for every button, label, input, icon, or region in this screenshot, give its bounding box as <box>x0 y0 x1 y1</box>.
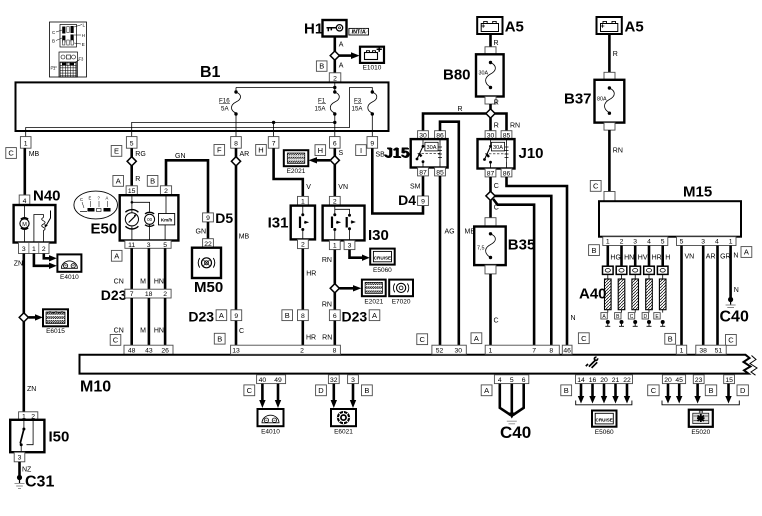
svg-text:15A: 15A <box>352 106 364 113</box>
pin 1 I31 <box>298 196 309 205</box>
svg-text:AR: AR <box>240 151 250 158</box>
wire MB J15/86 to M10/30 <box>440 122 459 346</box>
label H <box>256 145 267 156</box>
wire VN M15/5 to M10/1 <box>682 246 695 346</box>
svg-text:R: R <box>494 40 499 47</box>
svg-text:H: H <box>258 146 263 155</box>
arrows M10 to E4010 <box>259 384 281 408</box>
glow plug B (cyl 2) <box>615 266 627 326</box>
svg-text:A: A <box>474 334 479 343</box>
arrow to E6015 <box>29 314 43 320</box>
svg-text:87: 87 <box>419 169 427 176</box>
svg-text:H1: H1 <box>304 21 323 38</box>
svg-text:6: 6 <box>333 140 337 147</box>
svg-text:F3: F3 <box>79 57 85 62</box>
svg-text:E50: E50 <box>91 221 118 238</box>
label C <box>578 333 589 344</box>
svg-text:18: 18 <box>145 291 153 298</box>
svg-text:38: 38 <box>699 347 707 354</box>
svg-text:4: 4 <box>498 377 502 384</box>
ignition switch H1 <box>304 20 347 38</box>
svg-text:I: I <box>360 146 362 155</box>
label B <box>561 385 572 396</box>
svg-text:7: 7 <box>532 347 536 354</box>
preheating control unit M15 <box>599 184 741 237</box>
svg-text:Km/h: Km/h <box>161 217 173 222</box>
label A <box>741 247 752 258</box>
svg-text:ZN: ZN <box>27 386 36 393</box>
battery E1010 <box>360 47 384 72</box>
wire RN node to J10/85 <box>495 114 507 132</box>
svg-text:HN: HN <box>154 327 164 334</box>
svg-text:8: 8 <box>301 313 305 320</box>
fuse B80 30A <box>443 47 504 104</box>
svg-text:N40: N40 <box>33 188 61 205</box>
label A <box>111 250 122 261</box>
pins 48 43 26 M10 <box>124 345 173 354</box>
pins 13 2 8 M10 <box>231 345 341 354</box>
label B <box>147 176 158 187</box>
svg-text:5: 5 <box>163 242 167 249</box>
label A <box>481 385 492 396</box>
svg-text:F1: F1 <box>51 66 57 71</box>
connector D4 pin 9 <box>418 196 429 206</box>
svg-text:CRUISE: CRUISE <box>374 255 391 260</box>
label B <box>705 385 716 396</box>
svg-text:8: 8 <box>234 140 238 147</box>
svg-text:48: 48 <box>128 347 136 354</box>
B1 internal bus pin5 pin7 F1 <box>132 121 337 137</box>
cruise control unit E5060 <box>370 249 395 274</box>
label A <box>113 176 124 187</box>
svg-text:GN: GN <box>175 153 186 160</box>
svg-text:E7020: E7020 <box>392 298 411 305</box>
svg-text:E2021: E2021 <box>287 168 306 175</box>
svg-text:VN: VN <box>338 184 348 191</box>
svg-text:1: 1 <box>24 140 28 147</box>
pins 1 2 I50 <box>19 412 38 421</box>
label C <box>648 385 659 396</box>
pins 30 85 J10 <box>485 131 512 140</box>
wire HR D23 to M10/2 <box>301 321 304 346</box>
svg-text:3: 3 <box>348 243 352 250</box>
wire R node to E50/15 <box>130 166 133 186</box>
glow plug control unit N40 <box>14 188 61 243</box>
svg-text:B: B <box>319 62 324 71</box>
svg-text:M: M <box>22 222 27 228</box>
wire NZ to ground C31 <box>18 462 21 476</box>
svg-text:RG: RG <box>135 151 146 158</box>
svg-text:HG: HG <box>610 255 621 262</box>
bracket E5060 <box>576 401 632 405</box>
svg-text:2: 2 <box>301 242 305 249</box>
svg-text:B: B <box>591 246 596 255</box>
pins 30 86 J15 <box>418 131 446 140</box>
svg-text:B1: B1 <box>200 64 221 81</box>
pins 38 51 M10 <box>696 345 726 354</box>
svg-text:HR: HR <box>652 255 662 262</box>
svg-text:A40: A40 <box>579 286 607 303</box>
B1 internal bus F3 to pin 1 <box>26 88 373 137</box>
svg-text:9: 9 <box>370 140 374 147</box>
glow plug wire H M15/5 <box>663 246 671 267</box>
svg-text:30A: 30A <box>479 71 489 77</box>
glow plug wire HR M15/4 <box>649 246 662 267</box>
svg-text:N: N <box>733 253 738 260</box>
battery feed A5 <box>477 17 524 36</box>
svg-text:B37: B37 <box>564 91 592 108</box>
svg-text:2: 2 <box>333 75 337 82</box>
label C <box>726 335 737 346</box>
brake pedal switch I31 <box>268 206 315 240</box>
glow plug E (cyl 5) <box>654 266 668 326</box>
svg-text:SM: SM <box>410 184 421 191</box>
wires 4 5 6 to ground C40 <box>500 384 524 419</box>
svg-text:A: A <box>219 311 224 320</box>
arrow to battery positive E1010 <box>339 52 360 59</box>
svg-text:MB: MB <box>29 151 40 158</box>
wire SM D4 to J15/87 <box>422 176 425 196</box>
svg-text:H: H <box>82 33 85 38</box>
arrows M10 to E6021 <box>331 384 357 408</box>
svg-text:5A: 5A <box>221 106 229 113</box>
svg-text:A5: A5 <box>625 19 644 36</box>
svg-text:R: R <box>135 176 140 183</box>
svg-text:HR: HR <box>306 334 316 341</box>
svg-text:CN: CN <box>114 327 124 334</box>
svg-text:C: C <box>593 182 599 191</box>
svg-text:E4010: E4010 <box>261 429 280 436</box>
wire GN D5 to M50/22 <box>207 222 210 239</box>
svg-text:4: 4 <box>23 198 27 205</box>
svg-text:B35: B35 <box>508 237 536 254</box>
wire ZN to I50 <box>22 322 25 412</box>
svg-text:C: C <box>728 336 734 345</box>
svg-text:INT/A: INT/A <box>352 30 366 36</box>
fuse F3 15A <box>352 90 377 136</box>
labels CN M HN <box>114 327 164 334</box>
engine control unit M10 <box>80 355 758 396</box>
wire MB B1/1 to N40/4 <box>23 148 26 195</box>
svg-text:4: 4 <box>647 239 651 246</box>
svg-text:51: 51 <box>715 347 723 354</box>
svg-text:1: 1 <box>489 347 493 354</box>
svg-text:E6015: E6015 <box>46 328 65 335</box>
label B <box>665 333 676 344</box>
connector D23 pin 6 <box>329 310 340 321</box>
svg-text:B: B <box>217 334 222 343</box>
svg-text:M: M <box>140 327 146 334</box>
wires CN M HN E50 to D23 <box>132 248 165 289</box>
svg-text:B: B <box>668 335 673 344</box>
svg-text:1: 1 <box>729 239 733 246</box>
stop lamp telltale E2021 <box>284 150 309 175</box>
svg-text:85: 85 <box>436 169 444 176</box>
svg-text:8: 8 <box>333 347 337 354</box>
svg-text:H: H <box>665 255 670 262</box>
pins 4 5 6 M10 bottom <box>494 375 528 384</box>
svg-text:7: 7 <box>130 291 134 298</box>
svg-text:C: C <box>494 183 499 190</box>
svg-text:C40: C40 <box>720 309 749 326</box>
glow plug wire HG M15/1 <box>608 246 621 267</box>
svg-text:RN: RN <box>322 302 332 309</box>
label D23 B <box>282 310 293 321</box>
wire RN B37 to M15 <box>608 130 611 191</box>
svg-text:A: A <box>114 252 119 261</box>
svg-text:HN: HN <box>624 255 634 262</box>
node on S wire <box>330 156 339 165</box>
svg-text:7: 7 <box>272 140 276 147</box>
wire C node to B35 <box>489 200 492 217</box>
wire ZN N40/3 down <box>22 254 25 314</box>
label D <box>737 385 748 396</box>
pin 7 B1 <box>268 137 279 149</box>
label C <box>6 148 17 159</box>
svg-text:SB: SB <box>376 152 386 159</box>
svg-text:5: 5 <box>661 239 665 246</box>
arrow N40/2 to E4010 <box>44 254 57 262</box>
relay J10 <box>478 139 544 168</box>
svg-text:2: 2 <box>163 291 167 298</box>
node on AR wire <box>231 157 240 166</box>
svg-text:ZN: ZN <box>14 261 23 268</box>
label B <box>362 385 373 396</box>
svg-text:43: 43 <box>145 347 153 354</box>
svg-text:C: C <box>630 314 634 320</box>
svg-text:B: B <box>52 39 55 44</box>
svg-text:B: B <box>285 311 290 320</box>
svg-text:R: R <box>458 106 463 113</box>
wire AR M15/3 to M10/38 <box>703 246 715 346</box>
svg-text:C: C <box>113 336 119 345</box>
wire C B35 to M10/1 <box>489 274 492 345</box>
injection control unit E5020 <box>689 410 713 436</box>
pin 22 M50 <box>203 239 214 248</box>
label B <box>316 61 327 71</box>
battery feed A5 second <box>597 17 644 36</box>
svg-text:VN: VN <box>685 254 695 261</box>
svg-text:D: D <box>318 386 324 395</box>
svg-text:C: C <box>494 318 499 325</box>
pins 1 2 3 4 5 M15 <box>603 237 668 246</box>
svg-text:J15: J15 <box>385 145 410 162</box>
node splice below H1 <box>330 51 339 60</box>
node splice C <box>486 191 495 200</box>
glow plug C (cyl 3) <box>628 266 640 326</box>
svg-text:21: 21 <box>612 377 620 384</box>
svg-text:E1010: E1010 <box>363 65 382 72</box>
node on ZN wire <box>19 313 28 322</box>
wire node to M10/8 <box>495 196 552 345</box>
svg-text:3: 3 <box>18 455 22 462</box>
svg-text:00: 00 <box>147 217 153 222</box>
pin 23 M10 bottom <box>693 375 704 384</box>
node splice R <box>486 109 495 118</box>
label A <box>471 333 482 344</box>
svg-text:C: C <box>581 334 587 343</box>
arrow N40/1 to E4010 <box>34 254 57 270</box>
wire node to M10/7 <box>493 199 534 345</box>
arrow I30/3 to E5060 <box>350 250 370 261</box>
svg-text:AG: AG <box>445 229 455 236</box>
label E <box>111 146 122 157</box>
ground C31 <box>15 474 55 491</box>
svg-text:13: 13 <box>232 347 240 354</box>
connector D23 pin 9 <box>231 310 242 321</box>
junction unit E6015 <box>43 309 68 335</box>
pin 9 B1 <box>367 137 378 149</box>
pin 1 M10 right <box>676 345 686 354</box>
svg-text:E2021: E2021 <box>364 298 383 305</box>
svg-text:N: N <box>734 287 739 294</box>
wire HR I31/2 to D23/8 <box>301 249 304 310</box>
svg-text:9: 9 <box>206 215 210 222</box>
svg-text:E6021: E6021 <box>334 429 353 436</box>
label B <box>589 245 600 256</box>
pin 32 M10 bottom <box>328 375 339 384</box>
svg-text:C: C <box>80 197 83 202</box>
svg-text:9: 9 <box>234 313 238 320</box>
svg-text:D5: D5 <box>215 210 233 226</box>
ground C40 <box>500 421 531 442</box>
svg-text:H: H <box>318 146 323 155</box>
svg-text:80A: 80A <box>597 97 607 103</box>
svg-text:CRUISE: CRUISE <box>596 417 613 422</box>
svg-text:87: 87 <box>487 170 495 177</box>
svg-text:5: 5 <box>680 239 684 246</box>
svg-text:2: 2 <box>42 246 46 253</box>
label F <box>214 145 225 156</box>
svg-text:D: D <box>643 314 647 320</box>
svg-text:30A: 30A <box>493 145 503 151</box>
svg-text:1: 1 <box>32 246 36 253</box>
svg-text:D: D <box>740 386 746 395</box>
wires CN M HN D23 to M10 <box>132 298 165 345</box>
svg-text:D23: D23 <box>188 308 214 324</box>
svg-text:V: V <box>306 184 311 191</box>
pins 87 85 J15 <box>418 168 446 177</box>
svg-text:1: 1 <box>333 243 337 250</box>
svg-text:32: 32 <box>330 377 338 384</box>
cruise control switch I30 <box>323 206 389 244</box>
svg-text:9: 9 <box>421 199 425 206</box>
svg-text:46: 46 <box>563 347 571 354</box>
label C <box>244 385 255 396</box>
svg-text:40: 40 <box>259 377 267 384</box>
svg-text:GR: GR <box>720 254 731 261</box>
pin 3 I50 <box>14 452 25 462</box>
wire MB node to D23/9 <box>235 166 238 310</box>
wire A node to pin 2 <box>333 60 336 73</box>
svg-text:A: A <box>372 311 377 320</box>
svg-text:20: 20 <box>600 377 608 384</box>
alternator E6021 <box>331 409 356 436</box>
svg-text:B: B <box>564 386 569 395</box>
svg-text:CN: CN <box>114 278 124 285</box>
relay J15 <box>385 139 448 167</box>
pins 52 30 M10 <box>432 345 466 354</box>
B1 internal wire pin2 junction <box>236 82 336 91</box>
node on RN wire <box>330 284 339 293</box>
svg-text:B: B <box>708 386 713 395</box>
svg-text:86: 86 <box>503 170 511 177</box>
svg-text:A: A <box>744 248 749 257</box>
svg-text:14: 14 <box>577 377 585 384</box>
svg-text:HN: HN <box>154 278 164 285</box>
glow plug wire HV M15/3 <box>635 246 648 267</box>
wire S B1/6 to node <box>333 148 336 156</box>
wire RN D23 to M10/8 <box>333 321 336 346</box>
svg-text:E: E <box>82 42 85 47</box>
svg-text:30A: 30A <box>427 145 437 151</box>
svg-text:D23: D23 <box>101 287 127 303</box>
pin 2 of B1 <box>329 73 341 83</box>
svg-text:M10: M10 <box>80 379 111 396</box>
svg-text:RN: RN <box>613 148 623 155</box>
arrows M10 to E5060 <box>578 384 630 404</box>
svg-text:6: 6 <box>333 313 337 320</box>
wire GR M15/4 to M10/51 <box>718 246 731 346</box>
label INT/A <box>349 28 369 35</box>
svg-text:I31: I31 <box>268 215 289 232</box>
svg-text:52: 52 <box>436 347 444 354</box>
svg-text:1: 1 <box>606 239 610 246</box>
wire R bus to J15/30 <box>423 114 486 132</box>
wire N J10/86 to M10/46 <box>507 177 568 345</box>
svg-text:8: 8 <box>549 347 553 354</box>
label I <box>356 145 367 156</box>
svg-text:RN: RN <box>510 123 520 130</box>
connector D23 pins 7 18 2 <box>101 287 171 303</box>
pin 6 B1 <box>330 137 341 149</box>
svg-text:7,5: 7,5 <box>477 246 485 252</box>
pin 5 B1 <box>126 137 137 149</box>
svg-text:A: A <box>106 196 109 201</box>
wire RN I30/1 to node <box>333 250 336 284</box>
svg-text:E5060: E5060 <box>373 267 392 274</box>
label D <box>316 385 327 396</box>
svg-text:E5060: E5060 <box>595 429 614 436</box>
label C <box>590 181 601 192</box>
pins 14 16 20 21 22 M10 bottom <box>576 375 633 384</box>
wire VN node to I30/2 <box>333 165 336 197</box>
ground C40 <box>720 297 749 326</box>
fuse box B1 <box>16 64 389 131</box>
svg-text:3: 3 <box>147 242 151 249</box>
svg-text:3: 3 <box>351 377 355 384</box>
wire A from H1 to node <box>333 37 336 52</box>
svg-text:A5: A5 <box>505 19 524 36</box>
svg-text:C31: C31 <box>25 474 54 491</box>
pin 1 B1 <box>20 137 31 149</box>
brake telltale E7020 <box>389 280 413 306</box>
svg-text:S: S <box>339 150 344 157</box>
fuse F16 5A <box>219 90 241 136</box>
instrument cluster sketch balloon <box>74 191 118 219</box>
wire R B80 to node <box>489 104 492 109</box>
svg-text:2: 2 <box>620 239 624 246</box>
arrow node to E2021 <box>340 285 362 291</box>
svg-text:C: C <box>8 149 14 158</box>
svg-text:MB: MB <box>239 234 250 241</box>
svg-text:3: 3 <box>633 239 637 246</box>
svg-text:5: 5 <box>510 377 514 384</box>
arrows M10 to E5020 <box>665 384 732 404</box>
svg-text:NZ: NZ <box>22 467 32 474</box>
wire AG J15/85 to M10/52 <box>439 176 442 345</box>
svg-text:AR: AR <box>706 254 716 261</box>
